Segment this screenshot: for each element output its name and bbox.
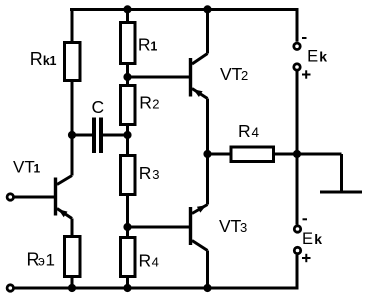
svg-text:k: k bbox=[319, 48, 327, 64]
svg-text:VT: VT bbox=[219, 216, 242, 236]
svg-text:R: R bbox=[139, 163, 152, 183]
svg-text:R: R bbox=[238, 121, 251, 141]
svg-text:R: R bbox=[139, 92, 152, 112]
svg-text:R: R bbox=[30, 49, 43, 69]
svg-text:E: E bbox=[307, 47, 318, 65]
svg-text:R: R bbox=[139, 251, 152, 271]
svg-text:э: э bbox=[38, 254, 45, 269]
svg-text:4: 4 bbox=[252, 125, 260, 140]
svg-text:1: 1 bbox=[34, 162, 41, 176]
svg-text:k1: k1 bbox=[43, 54, 57, 68]
svg-text:2: 2 bbox=[241, 68, 248, 83]
svg-text:1: 1 bbox=[46, 251, 55, 270]
svg-text:k: k bbox=[314, 231, 322, 247]
svg-text:1: 1 bbox=[150, 40, 157, 54]
svg-text:R: R bbox=[138, 35, 151, 55]
svg-text:3: 3 bbox=[240, 220, 247, 235]
svg-text:VT: VT bbox=[220, 64, 243, 84]
svg-text:3: 3 bbox=[152, 167, 159, 182]
svg-text:E: E bbox=[302, 230, 313, 248]
svg-text:2: 2 bbox=[152, 96, 159, 111]
svg-text:C: C bbox=[92, 97, 105, 117]
svg-text:4: 4 bbox=[152, 255, 159, 270]
svg-text:VT: VT bbox=[13, 158, 35, 177]
